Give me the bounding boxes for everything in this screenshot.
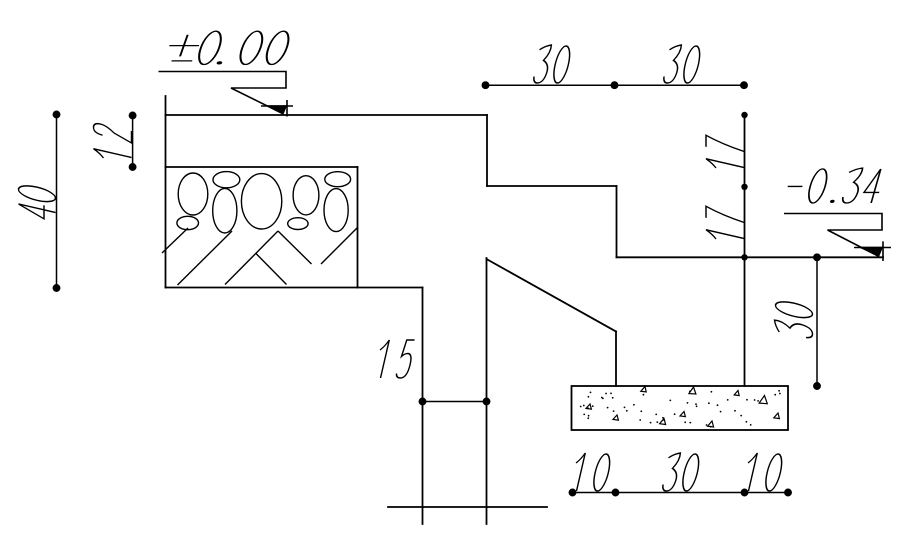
dimension label 40 xyxy=(19,183,56,222)
post right edge xyxy=(486,258,488,524)
masonry stones hatch xyxy=(177,172,351,233)
dimension label 17 (upper) xyxy=(706,135,744,174)
elevation mark 0.00 arrowhead xyxy=(267,105,287,114)
dimension label 30 (top second) xyxy=(662,45,703,83)
dimension label 30 (top first) xyxy=(532,45,573,83)
dimension dots right 17/17 xyxy=(741,112,747,261)
masonry right edge xyxy=(357,167,359,288)
dimension line top 30+30 xyxy=(482,82,747,88)
dimension label 15 xyxy=(374,340,416,378)
step riser 2 xyxy=(616,186,618,257)
footing outline xyxy=(572,386,789,430)
sloped underside line xyxy=(487,259,617,332)
elevation mark -0.34 arrowhead xyxy=(858,247,884,257)
step tread 1 xyxy=(487,185,617,187)
dimension line bottom 10+30+10 xyxy=(569,489,791,495)
ground line bottom xyxy=(388,506,547,508)
elevation label -0.34 xyxy=(788,168,886,203)
section edge line right xyxy=(744,115,746,386)
dimension label 10 (bottom right) xyxy=(742,453,785,491)
elevation label +-0.00 xyxy=(164,31,293,64)
elevation mark -0.34 leader xyxy=(784,214,891,262)
dimension label 12 xyxy=(94,122,132,164)
wall left edge xyxy=(165,96,167,288)
step riser 1 xyxy=(486,115,488,186)
dimension line right 30 xyxy=(814,254,820,389)
dimension label 17 (lower) xyxy=(706,206,744,245)
ground level line at elevation 0.00 xyxy=(166,114,488,116)
dimension line 12 xyxy=(129,112,135,170)
dimension label 30 (right vertical) xyxy=(775,299,813,340)
concrete stipple triangles xyxy=(586,387,779,428)
masonry bottom line xyxy=(166,287,423,289)
masonry rubble hatch lines xyxy=(162,228,358,286)
step tread 2 / level -0.34 line xyxy=(617,256,884,258)
post left edge xyxy=(422,288,424,525)
footing stem edge xyxy=(615,332,617,387)
dimension label 10 (bottom left) xyxy=(570,453,613,491)
slab underside / masonry top line xyxy=(166,166,358,168)
concrete stipple dots xyxy=(580,390,781,428)
dimension line 15 xyxy=(419,398,489,404)
dimension label 30 (bottom) xyxy=(661,453,702,491)
elevation mark 0.00 leader xyxy=(159,72,294,117)
dimension line left 40 xyxy=(53,111,59,291)
